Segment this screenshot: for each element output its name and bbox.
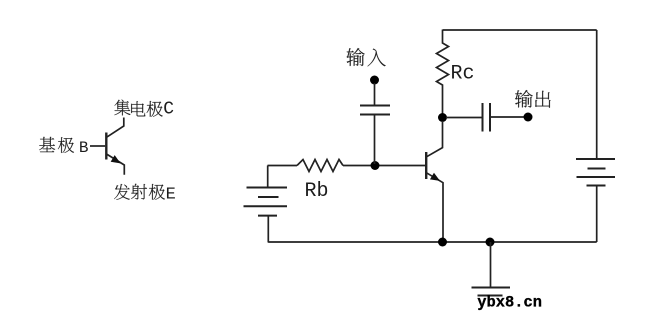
svg-text:C: C xyxy=(163,100,174,120)
node: ground junction xyxy=(486,238,495,247)
terminal: input xyxy=(370,76,379,85)
svg-text:Rc: Rc xyxy=(451,62,475,85)
label: base 基极B xyxy=(39,137,88,157)
resistor Rb xyxy=(297,160,343,172)
battery B2 (right, Vcc) xyxy=(576,159,615,186)
label: input 输入 xyxy=(347,48,386,66)
svg-text:Rb: Rb xyxy=(305,180,329,203)
wire: input lead xyxy=(374,83,376,105)
wire: bottom rail xyxy=(268,241,597,243)
wire: collector lead xyxy=(427,121,443,157)
resistor Rc xyxy=(437,30,449,118)
wire: B1 bottom lead xyxy=(267,216,269,243)
wire: Rb to base xyxy=(343,165,425,167)
node: emitter junction xyxy=(438,238,447,247)
node: base junction xyxy=(371,161,380,170)
wire: right rail upper xyxy=(596,30,598,159)
wire: B1 top lead xyxy=(267,166,269,188)
capacitor C2 (output coupling) xyxy=(483,103,491,132)
transistor Q1 (NPN) xyxy=(426,152,443,242)
svg-text:E: E xyxy=(166,185,176,204)
terminal: output xyxy=(524,113,533,122)
battery B1 (left, base bias) xyxy=(244,188,288,216)
capacitor C1 (input coupling) xyxy=(360,106,390,115)
label: output 输出 xyxy=(515,90,551,108)
label: emitter 发射极E xyxy=(114,184,176,204)
wire: collector to C2 xyxy=(446,117,482,119)
svg-text:ybx8.cn: ybx8.cn xyxy=(477,293,542,311)
wire: C1 to base node xyxy=(374,115,376,164)
wire: Vcc top rail xyxy=(443,29,597,31)
wire: battery to Rb xyxy=(268,165,298,167)
node: collector junction xyxy=(438,113,447,122)
transistor legend symbol (NPN) xyxy=(90,118,124,175)
label: collector 集电极C xyxy=(114,100,174,120)
ground symbol xyxy=(472,288,511,296)
wire: C2 to output xyxy=(491,116,528,118)
svg-text:B: B xyxy=(79,139,89,157)
wire: right rail lower xyxy=(596,186,598,242)
wire: ground lead xyxy=(490,242,492,287)
